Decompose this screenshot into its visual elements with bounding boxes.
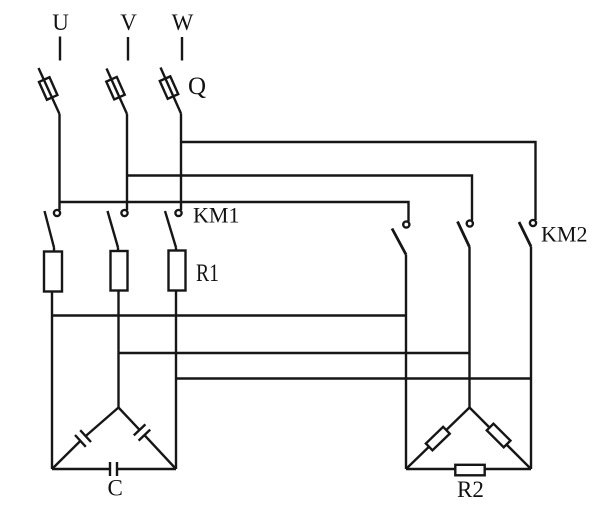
svg-text:R2: R2 xyxy=(457,477,484,502)
wire R1c lead down to delta right vertex xyxy=(175,291,177,470)
node W xyxy=(172,10,194,35)
capacitor C element right diagonal xyxy=(119,408,177,470)
wire V terminal stub xyxy=(127,37,129,61)
wire bus phase1 lower xyxy=(52,314,406,316)
wire bus phase3 lower xyxy=(176,377,531,379)
label R1 xyxy=(196,260,219,287)
wire R2 delta left side xyxy=(406,408,470,470)
svg-text:R1: R1 xyxy=(196,260,219,287)
contactor KM2 contact c xyxy=(519,220,536,469)
label R2 xyxy=(457,477,484,502)
wire bus phase2 lower xyxy=(119,352,470,354)
label C xyxy=(108,476,123,501)
resistor R2 element right diagonal xyxy=(487,424,511,448)
label KM2 xyxy=(541,222,587,247)
label Q xyxy=(188,73,206,100)
contactor KM1 contact a xyxy=(45,210,61,252)
wire bus U / KM1 rail to KM2 left xyxy=(60,202,409,222)
resistor R2 element bottom xyxy=(455,465,484,476)
fuse-switch Q pole V xyxy=(106,69,127,115)
wire R1b lead down to delta apex xyxy=(117,291,119,408)
contactor KM1 contact c xyxy=(165,210,182,251)
svg-text:W: W xyxy=(172,10,194,35)
wire bus V to KM2 middle xyxy=(127,176,472,221)
svg-text:C: C xyxy=(108,476,123,501)
wire W terminal stub xyxy=(181,37,183,61)
node U xyxy=(52,10,69,35)
wire V drop xyxy=(126,114,128,210)
fuse-switch Q pole W xyxy=(160,68,181,114)
label KM1 xyxy=(193,203,239,228)
svg-text:KM1: KM1 xyxy=(193,203,239,228)
fuse-switch Q pole U xyxy=(39,68,60,114)
wire U terminal stub xyxy=(59,37,61,61)
svg-text:U: U xyxy=(52,10,69,35)
wire W drop xyxy=(180,114,182,211)
svg-text:Q: Q xyxy=(188,73,206,100)
wire bus W to KM2 right xyxy=(181,142,536,220)
capacitor C element left diagonal xyxy=(52,408,119,470)
contactor KM2 contact b xyxy=(458,220,473,407)
contactor KM1 contact b xyxy=(108,210,128,252)
wire R2 delta right side xyxy=(470,408,532,470)
wire R2 delta bottom side xyxy=(406,468,531,470)
capacitor C element bottom xyxy=(52,462,176,476)
contactor KM2 contact a xyxy=(392,221,409,469)
svg-text:V: V xyxy=(120,10,137,35)
resistor R1 element a xyxy=(44,252,62,292)
wire U drop xyxy=(58,114,60,210)
node V xyxy=(120,10,137,35)
resistor R1 element c xyxy=(169,251,186,291)
resistor R2 element left diagonal xyxy=(426,427,450,451)
resistor R1 element b xyxy=(111,251,128,291)
wire R1a lead down to delta left vertex xyxy=(51,292,53,470)
svg-text:KM2: KM2 xyxy=(541,222,587,247)
